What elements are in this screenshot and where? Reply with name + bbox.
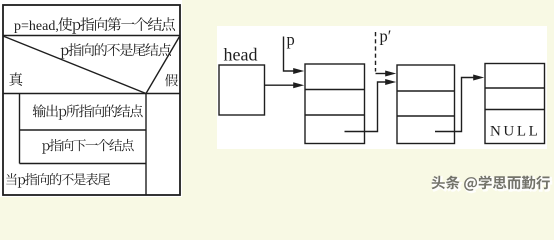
watermark white emboss	[433, 177, 551, 192]
wire pointer p-prime horizontal	[376, 73, 388, 75]
text 假	[165, 74, 178, 87]
node3 divider 1	[485, 87, 545, 89]
wire head to node1	[265, 84, 297, 86]
head box	[219, 65, 265, 115]
watermark 头条 @学思而勤行	[432, 176, 550, 191]
node2 divider 1	[397, 90, 455, 92]
text 真	[9, 72, 22, 86]
node3 box	[485, 64, 545, 144]
wire pointer p elbow	[284, 37, 297, 72]
text 使p指向第一个结点	[58, 17, 175, 33]
node1 divider 1	[305, 89, 365, 91]
loop body row divider	[20, 129, 147, 131]
left white panel (flowchart background)	[0, 0, 182, 197]
svg-text:p=head,: p=head,	[14, 19, 59, 34]
text p指向下一个结点	[42, 139, 134, 154]
arrowhead head->node1	[293, 82, 304, 88]
condition bottom line	[3, 93, 180, 95]
arrowhead node2->node3	[473, 75, 484, 81]
loop body left bar	[19, 94, 21, 164]
arrowhead p-prime->node2	[385, 71, 396, 77]
node3 divider 2	[485, 109, 545, 111]
row1 bottom line	[3, 35, 180, 37]
node1 divider 2	[305, 114, 365, 116]
NS outer frame	[3, 5, 180, 195]
svg-text:p: p	[287, 30, 295, 49]
wire link node1 to node2	[345, 82, 388, 132]
wire pointer p-prime dashed vertical	[375, 32, 377, 72]
condition diagonal short	[146, 37, 180, 94]
svg-text:p′: p′	[380, 27, 392, 46]
node1 box	[305, 64, 365, 144]
text p指向的不是尾结点	[61, 43, 171, 59]
node2 box	[397, 65, 455, 144]
right white panel (linked-list figure background)	[217, 26, 547, 149]
arrowhead p->node1	[293, 68, 304, 74]
wire link node2 to node3	[435, 78, 476, 132]
condition diagonal long	[3, 36, 146, 94]
arrowhead node1->node2	[385, 79, 396, 85]
text 输出p所指向的结点	[33, 104, 143, 119]
text 当p指向的不是表尾	[6, 173, 110, 188]
svg-text:head: head	[224, 45, 258, 65]
node2 divider 2	[397, 115, 455, 117]
loop body bottom line	[20, 163, 147, 165]
svg-text:NULL: NULL	[490, 124, 540, 140]
true/false column divider	[145, 94, 147, 196]
